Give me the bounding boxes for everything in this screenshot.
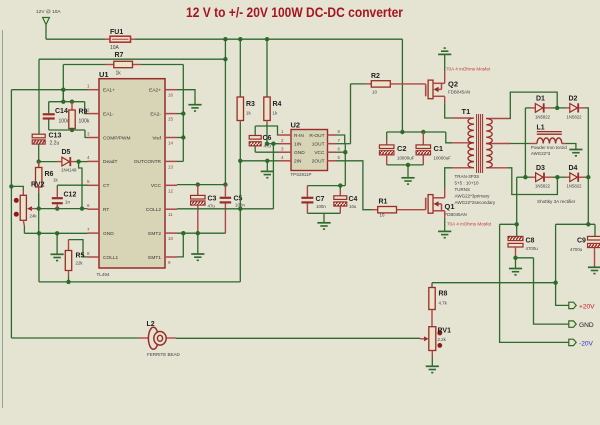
diode D5 1N4148 [37, 159, 41, 163]
sheet border (left edge) [2, 30, 4, 408]
svg-text:COLL1: COLL1 [103, 255, 119, 261]
svg-text:10u: 10u [349, 204, 357, 209]
svg-text:10: 10 [380, 213, 385, 218]
wire transformer supply rail [387, 131, 446, 133]
U1 pin 4 DeadT [88, 160, 100, 162]
capacitor C1 10000uF electrolytic [422, 132, 424, 145]
svg-text:100n: 100n [59, 119, 70, 125]
wire C7/C4 bottom [307, 212, 340, 214]
svg-text:1k: 1k [116, 71, 122, 77]
svg-text:4.7k: 4.7k [439, 301, 448, 306]
wire -20V node [500, 223, 517, 225]
svg-text:R1: R1 [379, 199, 388, 206]
svg-text:TL494: TL494 [97, 272, 110, 277]
wire R7 right to U1 right pins [141, 64, 183, 66]
svg-text:RV1: RV1 [438, 328, 452, 335]
terminal +20V [569, 302, 576, 308]
svg-text:GND: GND [103, 231, 114, 237]
svg-text:VCC: VCC [314, 150, 325, 156]
wire C6 to U2 GND pin3 [255, 151, 278, 153]
svg-text:FERRITE BEAD: FERRITE BEAD [147, 352, 181, 357]
U1 pin 11 COLL2 [165, 208, 177, 210]
svg-text:C4: C4 [349, 196, 358, 203]
svg-text:1N5822: 1N5822 [535, 115, 551, 120]
capacitor C14 [48, 102, 50, 114]
RV1 wiper arrow [424, 336, 429, 341]
ground under U2 [266, 161, 268, 171]
svg-text:FDB045AN: FDB045AN [448, 90, 470, 95]
svg-text:10: 10 [372, 90, 377, 95]
U1 pin 5 CT [88, 184, 100, 186]
svg-text:U2: U2 [291, 121, 301, 130]
capacitor C2 10000uF electrolytic [386, 132, 388, 140]
wire L1 to ground [566, 144, 576, 150]
wire C8 bottom / GND node [513, 256, 517, 260]
wire C2/C1 bottoms [387, 164, 424, 166]
svg-text:C2: C2 [397, 144, 407, 153]
ground [407, 165, 409, 178]
svg-text:C9: C9 [577, 238, 586, 245]
wire +20V vertical [555, 224, 557, 282]
wire GND rail pin7 [24, 232, 87, 234]
svg-text:70A 4 mOhms Mosfet: 70A 4 mOhms Mosfet [447, 222, 492, 227]
svg-text:GND: GND [294, 150, 305, 156]
svg-text:2.2u: 2.2u [50, 141, 60, 147]
wire +12V top rail [46, 38, 105, 40]
svg-text:Q1: Q1 [445, 202, 455, 211]
svg-text:DeadT: DeadT [103, 159, 117, 165]
svg-text:D2: D2 [569, 96, 578, 103]
ground [197, 233, 199, 253]
transistor Q2 FDB045AN [425, 84, 427, 96]
wire +20V rail to R8 [432, 282, 556, 284]
capacitor C8 4700u electrolytic [516, 224, 518, 236]
wire R7 to C14 rail [62, 90, 64, 102]
op-amp U2 TPS2811P body [291, 130, 328, 171]
svg-text:24k: 24k [30, 214, 38, 219]
svg-text:D4: D4 [569, 165, 578, 172]
resistor R3 1k [239, 39, 241, 95]
fuse FU1 [105, 38, 110, 40]
wire C14/R9 top rail [49, 101, 85, 103]
svg-text:C1: C1 [434, 144, 444, 153]
svg-text:CT: CT [103, 183, 109, 189]
svg-text:Vref: Vref [152, 135, 161, 141]
U1 pin 13 OUTCONTR [165, 160, 177, 162]
capacitor C13 electrolytic [32, 134, 45, 138]
wire to pin2 EA1- [85, 102, 88, 114]
transistor Q1 FDB045AN [425, 198, 427, 210]
svg-text:C12: C12 [64, 192, 77, 199]
svg-text:12: 12 [168, 188, 174, 193]
svg-text:EMT2: EMT2 [148, 231, 161, 237]
resistor R9 [71, 102, 73, 110]
svg-text:D1: D1 [536, 96, 545, 103]
svg-text:R7: R7 [115, 52, 124, 59]
svg-text:VCC: VCC [151, 183, 162, 189]
ground [588, 266, 600, 268]
resistor R8 4.7k [431, 283, 433, 288]
wire pins 15/14/13 common [181, 111, 185, 115]
U1 pin 2 EA1- [88, 113, 100, 115]
svg-text:R5: R5 [76, 253, 85, 260]
diode D4 1N5822 [557, 176, 566, 178]
svg-text:+20V: +20V [579, 304, 595, 311]
wire Q2 source up to flipped ground [444, 71, 446, 83]
svg-text:D3: D3 [536, 165, 545, 172]
resistor R4 1k [266, 39, 268, 95]
svg-text:RV2: RV2 [31, 182, 45, 189]
wire COLL2 to 1IN [272, 144, 274, 209]
RV2 wiper arrow [27, 206, 32, 211]
svg-text:70A 4 mOhms Mosfet: 70A 4 mOhms Mosfet [446, 67, 491, 72]
svg-text:EA2+: EA2+ [149, 88, 161, 94]
svg-text:10A: 10A [110, 45, 120, 51]
svg-text:R8: R8 [439, 291, 448, 298]
svg-text:1n: 1n [65, 200, 70, 205]
U1 pin 6 RT [88, 208, 100, 210]
svg-text:4700u: 4700u [526, 246, 539, 251]
U2 pin 4 2IN [279, 160, 292, 162]
resistor R5 22k [69, 240, 88, 257]
wire RV1 bottom to ground [431, 351, 433, 358]
svg-text:C7: C7 [316, 196, 325, 203]
svg-text:C13: C13 [49, 133, 62, 140]
ground [323, 213, 325, 222]
wire GND terminal [534, 258, 569, 324]
diode D1 1N5822 [525, 107, 531, 109]
U2 pin 6 VCC [328, 151, 337, 153]
wire [45, 25, 47, 40]
svg-text:12 V to +/- 20V 100W DC-DC con: 12 V to +/- 20V 100W DC-DC converter [186, 5, 404, 20]
wire DeadT branch to RT net [79, 162, 82, 209]
svg-text:U1: U1 [99, 70, 109, 79]
svg-text:1OUT: 1OUT [312, 142, 325, 148]
svg-text:RT: RT [103, 207, 109, 213]
svg-text:COMP/PWM: COMP/PWM [103, 135, 130, 141]
U1 pin 1 EA1+ [88, 89, 100, 91]
svg-text:C6: C6 [263, 135, 272, 142]
svg-text:10: 10 [168, 236, 174, 241]
svg-text:2OUT: 2OUT [312, 159, 325, 165]
svg-text:AWG22*3: AWG22*3 [531, 151, 551, 156]
wire VCC pin6 branch [344, 143, 347, 145]
svg-text:100k: 100k [79, 119, 90, 125]
capacitor C6 47u electrolytic [255, 126, 278, 135]
svg-text:1k: 1k [273, 111, 278, 116]
svg-text:1IN: 1IN [294, 142, 302, 148]
wire +12V top rail right [136, 38, 403, 40]
capacitor C3 47u electrolytic [197, 185, 199, 196]
ground [426, 365, 439, 367]
U1 pin 15 EA2- [165, 113, 177, 115]
svg-text:OUTCONTR: OUTCONTR [134, 159, 162, 165]
svg-text:47u: 47u [208, 204, 216, 209]
ground [56, 233, 58, 254]
U2 pin 2 1IN [279, 143, 292, 145]
U2 pin 5 2OUT [328, 160, 337, 162]
svg-text:12V @ 10A: 12V @ 10A [36, 9, 61, 15]
svg-text:Shottky 3A rectifier: Shottky 3A rectifier [537, 199, 576, 204]
svg-text:R3: R3 [246, 101, 255, 108]
wire secondary top to D1/D2 mid [509, 92, 557, 118]
op-amp U1 TL494 body [99, 79, 165, 268]
wire 12V down to transformer rail [401, 39, 403, 132]
svg-text:R9: R9 [79, 109, 88, 116]
pot RV1 2.2k [429, 327, 436, 351]
ground [569, 149, 582, 151]
U1 pin 3 COMP/PWM [88, 137, 100, 139]
U1 pin 10 EMT2 [165, 232, 177, 234]
svg-text:R4: R4 [273, 101, 282, 108]
resistor R7 [63, 64, 105, 66]
svg-text:22k: 22k [76, 261, 84, 266]
U1 pin 8 COLL1 [88, 256, 100, 258]
wire feedback left vertical [10, 90, 12, 338]
capacitor C7 100n [307, 185, 345, 187]
wire L2 to RV1 wiper [176, 337, 420, 339]
svg-text:1N5822: 1N5822 [567, 115, 583, 120]
capacitor C9 4700u electrolytic [594, 224, 596, 236]
diode D2 1N5822 [557, 107, 566, 109]
wire D3 rail down to C8 node [516, 177, 518, 224]
wire RT rail [35, 208, 88, 210]
wire C13 branch down [38, 59, 40, 134]
U2 pin 8 R-OUT [328, 134, 337, 136]
svg-text:16: 16 [168, 93, 174, 98]
U1 pin 14 Vref [165, 137, 177, 139]
wire rail to C13 [39, 58, 225, 60]
capacitor C12 [56, 185, 58, 188]
wire GND branch down [38, 233, 40, 282]
svg-text:FDB045AN: FDB045AN [445, 212, 467, 217]
svg-text:C14: C14 [55, 108, 68, 115]
svg-text:R2: R2 [371, 73, 380, 80]
svg-text:COLL2: COLL2 [146, 207, 162, 213]
wire R-OUT/1OUT to R2 [336, 135, 345, 144]
U2 pin 1 R-IN [279, 134, 292, 136]
diode D3 1N5822 [517, 176, 531, 178]
svg-text:Q2: Q2 [448, 80, 458, 89]
wire pin1 EA1+ left [11, 89, 87, 91]
wire EMT2 pin10 rail [177, 232, 225, 234]
wire 2OUT to R1 [336, 161, 372, 210]
svg-text:TPS2811P: TPS2811P [291, 172, 312, 177]
wire bottom feedback rail [11, 337, 138, 339]
wire R4 to pin2 1IN [267, 143, 279, 145]
resistor R2 10 [351, 83, 367, 85]
ground flipped above Q2 [438, 53, 451, 55]
svg-text:EMT1: EMT1 [148, 255, 161, 261]
wire bottom rail COLL1/ground net [39, 281, 240, 283]
svg-text:14: 14 [168, 141, 174, 146]
svg-text:R-IN: R-IN [294, 133, 304, 139]
U1 pin 9 EMT1 [165, 256, 177, 258]
svg-text:GND: GND [579, 322, 594, 329]
svg-text:1N4148: 1N4148 [61, 168, 77, 173]
svg-text:13: 13 [168, 164, 174, 169]
ground [515, 258, 517, 268]
wire -20V down [500, 224, 569, 342]
svg-text:EA1-: EA1- [103, 111, 114, 117]
junction [223, 37, 227, 41]
svg-text:C8: C8 [526, 238, 535, 245]
wire EMT1 pin9 jog [177, 233, 183, 257]
wire VCC pin12 rail [177, 184, 225, 186]
U2 pin 7 1OUT [328, 143, 337, 145]
wire pin16 EA2+ to ground [177, 90, 195, 105]
svg-text:Powder Iron toroid: Powder Iron toroid [531, 145, 567, 150]
wire +20V terminal [556, 283, 569, 306]
svg-text:11: 11 [168, 212, 173, 217]
wire COLL2 pin11 [177, 208, 273, 210]
U1 pin 16 EA2+ [165, 89, 177, 91]
svg-text:EA2-: EA2- [150, 111, 161, 117]
wire 12V to VCC [224, 59, 226, 184]
wire CT rail [57, 184, 87, 186]
svg-text:TRAN-3P3S: TRAN-3P3S [455, 174, 480, 179]
wire Q1 drain to transformer [444, 189, 446, 198]
svg-text:EA1+: EA1+ [103, 88, 115, 94]
svg-text:100n: 100n [316, 204, 326, 209]
svg-text:1k: 1k [53, 178, 58, 183]
wire secondary bottom loop to D3/D4 mid [508, 168, 557, 195]
wire Q1 source to ground [444, 211, 446, 218]
svg-text:AWG22*3primary: AWG22*3primary [455, 194, 491, 199]
svg-text:1k: 1k [246, 111, 251, 116]
capacitor C4 10u electrolytic [339, 186, 341, 190]
terminal -20V [569, 339, 576, 345]
svg-text:10000uF: 10000uF [434, 156, 452, 161]
wire C14/R9 bottom to pin3 COMP [49, 129, 85, 131]
resistor R6 [38, 162, 40, 168]
svg-text:FU1: FU1 [110, 29, 123, 36]
svg-text:-20V: -20V [579, 340, 594, 347]
terminal GND [569, 321, 576, 327]
svg-text:L1: L1 [537, 125, 545, 132]
wire pin4 2IN [240, 160, 278, 162]
U1 pin 7 GND [88, 232, 100, 234]
svg-text:2.2k: 2.2k [438, 337, 447, 342]
svg-text:AWG22*2secondary: AWG22*2secondary [455, 200, 496, 205]
svg-text:2IN: 2IN [294, 159, 302, 165]
svg-text:4700u: 4700u [570, 247, 583, 252]
capacitor C5 100n [224, 185, 226, 197]
ground [438, 230, 451, 232]
resistor R1 10 [372, 209, 378, 211]
wire +V node to C9 [556, 223, 595, 225]
svg-text:5+5 : 10+10: 5+5 : 10+10 [455, 181, 480, 186]
svg-text:C3: C3 [208, 196, 217, 203]
U1 pin 12 VCC [165, 184, 177, 186]
wire R7 left leg [62, 65, 64, 102]
wire Q2 drain to transformer [444, 96, 446, 104]
svg-text:15: 15 [168, 117, 174, 122]
svg-text:TURNS: TURNS [455, 187, 471, 192]
svg-text:D5: D5 [62, 149, 71, 156]
svg-text:T1: T1 [462, 107, 471, 116]
wire D1 anode down to D3 rail [524, 108, 526, 177]
ground [188, 104, 201, 106]
svg-text:10000uF: 10000uF [397, 156, 415, 161]
U2 pin 3 GND [279, 151, 292, 153]
svg-text:1N5822: 1N5822 [535, 184, 551, 189]
svg-text:1N5822: 1N5822 [567, 184, 583, 189]
svg-text:R-OUT: R-OUT [309, 133, 324, 139]
